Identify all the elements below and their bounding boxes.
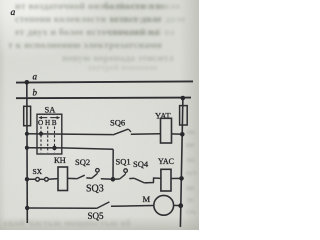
contact SQ2 label xyxy=(75,157,90,167)
switch SA position dashed line O xyxy=(40,127,42,153)
coil YAT (brake electromagnet) xyxy=(161,118,172,143)
wire row1: YAT to right bus xyxy=(172,133,183,135)
switch SA contact dot (O, row1) xyxy=(39,132,43,136)
coil YAC (clutch electromagnet) xyxy=(161,169,171,191)
contact SQ1 label xyxy=(116,157,131,167)
wire row1: SQ6 to YAT xyxy=(131,133,161,136)
switch SA direction arrows xyxy=(39,116,60,119)
contact SQ3 label xyxy=(86,184,104,195)
contact SQ5 lever xyxy=(96,202,109,209)
switch SA position dashed line H xyxy=(47,127,49,153)
motor M xyxy=(154,195,174,215)
contact SQ2 lever xyxy=(76,175,84,179)
connector SX label xyxy=(33,167,43,176)
connector SX (plug-socket) xyxy=(36,177,49,181)
junction row3 center xyxy=(111,177,116,182)
node label a xyxy=(33,72,38,82)
wire row3: SQ3 to junction xyxy=(101,178,113,181)
junction left bus row2 xyxy=(25,146,29,150)
paper scan grain xyxy=(0,0,199,230)
bus line b xyxy=(16,97,191,100)
wire row3: junction to SQ1 xyxy=(113,178,120,180)
wire row3: SX to KH xyxy=(48,178,58,181)
junction right bus row1 xyxy=(180,132,185,137)
wire row3: bus to SX xyxy=(27,178,36,180)
motor M label xyxy=(143,194,151,204)
switch SA position letters O H B xyxy=(38,119,57,127)
wire row3: SQ4 jog to YAC xyxy=(144,178,161,183)
wire: row2 corner down to row3 xyxy=(112,149,114,179)
node label b xyxy=(33,88,38,98)
contact SQ1 lever with roller xyxy=(120,169,128,179)
junction right bus row5 xyxy=(178,203,183,208)
switch SA position dashed line B xyxy=(54,127,56,153)
coil YAT label xyxy=(155,110,171,120)
junction right bus row3 xyxy=(179,176,184,181)
wire row5: motor to right bus xyxy=(174,204,181,206)
junction on bus a xyxy=(25,80,30,85)
relay coil KH xyxy=(58,167,68,191)
wire row1: bus to SQ6 xyxy=(27,133,113,136)
junction on bus b xyxy=(181,96,186,101)
coil YAC label xyxy=(158,157,174,166)
switch SA box xyxy=(37,114,62,154)
contact SQ4 lever xyxy=(134,178,144,183)
bus line a xyxy=(16,81,193,82)
wire row3: SQ2 to SQ3 xyxy=(86,177,91,179)
junction left bus row3 xyxy=(25,177,29,181)
contact SQ6 label xyxy=(110,117,125,127)
wire row5: bus to SQ5 xyxy=(27,207,96,209)
wire row2: SA to corner xyxy=(62,148,113,149)
bleed-through text from reverse page xyxy=(15,1,165,12)
contact SQ6 lever xyxy=(113,129,131,135)
contact SQ3 lever with roller xyxy=(91,169,99,179)
contact SQ5 label xyxy=(88,211,105,221)
right vertical bus wire xyxy=(180,98,183,227)
wire row3: SQ1 to SQ4 xyxy=(129,177,134,179)
fuse FU1 (left) xyxy=(24,106,31,125)
switch SA contact dot (B, row2) xyxy=(52,146,56,150)
contact SQ4 label xyxy=(133,159,149,169)
left vertical bus wire xyxy=(26,82,29,223)
wire row3: KH to SQ2 xyxy=(68,177,77,179)
wire row2: bus to SA xyxy=(27,147,62,149)
wire row3: YAC to right bus xyxy=(171,177,182,179)
relay coil KH label xyxy=(54,155,66,165)
wire row5: SQ5 to motor xyxy=(111,205,154,208)
switch SA label xyxy=(45,105,57,115)
figure label a (top-left) xyxy=(11,8,16,18)
junction left bus row1 xyxy=(25,132,29,136)
fuse FU2 (right) xyxy=(180,106,188,125)
junction left bus row5 xyxy=(25,206,29,210)
